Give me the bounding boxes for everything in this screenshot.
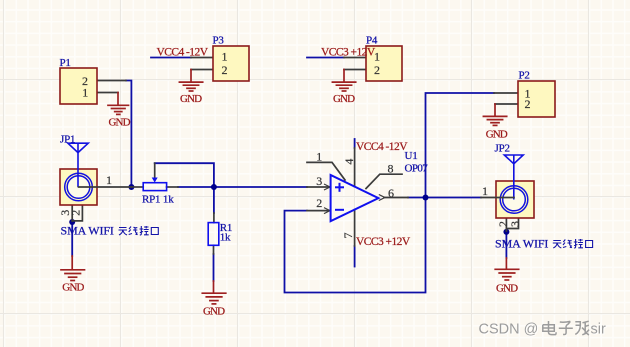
svg-text:1: 1 bbox=[482, 184, 488, 198]
svg-text:VCC3 +12V: VCC3 +12V bbox=[356, 236, 411, 248]
svg-text:RP1 1k: RP1 1k bbox=[142, 194, 174, 206]
svg-text:P4: P4 bbox=[366, 35, 378, 47]
svg-text:1k: 1k bbox=[220, 232, 231, 244]
svg-text:1: 1 bbox=[82, 86, 88, 100]
svg-text:GND: GND bbox=[203, 306, 225, 318]
svg-text:2: 2 bbox=[68, 210, 82, 216]
svg-text:SMA WIFI: SMA WIFI bbox=[61, 224, 114, 238]
svg-text:3: 3 bbox=[508, 221, 522, 227]
svg-text:8: 8 bbox=[388, 161, 394, 175]
svg-text:1: 1 bbox=[222, 50, 228, 64]
svg-text:1: 1 bbox=[106, 173, 112, 187]
svg-text:GND: GND bbox=[486, 129, 508, 141]
svg-text:1: 1 bbox=[316, 150, 322, 164]
svg-text:GND: GND bbox=[180, 93, 202, 105]
svg-text:1: 1 bbox=[374, 50, 380, 64]
svg-text:6: 6 bbox=[388, 186, 394, 200]
svg-text:GND: GND bbox=[496, 283, 518, 295]
svg-text:2: 2 bbox=[374, 63, 380, 77]
svg-text:P2: P2 bbox=[519, 70, 530, 82]
svg-text:OP07: OP07 bbox=[405, 163, 429, 175]
svg-text:P1: P1 bbox=[60, 57, 71, 69]
svg-text:3: 3 bbox=[316, 174, 322, 188]
svg-text:JP1: JP1 bbox=[60, 134, 75, 146]
svg-text:2: 2 bbox=[316, 196, 322, 210]
svg-text:JP2: JP2 bbox=[495, 143, 510, 155]
svg-text:7: 7 bbox=[341, 233, 355, 239]
svg-text:GND: GND bbox=[62, 282, 84, 294]
svg-text:VCC4 -12V: VCC4 -12V bbox=[157, 47, 209, 59]
svg-text:sir: sir bbox=[591, 321, 606, 337]
svg-text:GND: GND bbox=[109, 117, 131, 129]
svg-text:VCC3 +12V: VCC3 +12V bbox=[321, 47, 376, 59]
svg-text:CSDN @: CSDN @ bbox=[479, 321, 539, 337]
svg-text:GND: GND bbox=[333, 93, 355, 105]
svg-text:VCC4 -12V: VCC4 -12V bbox=[356, 141, 408, 153]
svg-text:4: 4 bbox=[342, 159, 356, 165]
svg-text:2: 2 bbox=[525, 97, 531, 111]
svg-text:P3: P3 bbox=[213, 35, 225, 47]
svg-text:2: 2 bbox=[222, 63, 228, 77]
svg-text:SMA WIFI: SMA WIFI bbox=[495, 237, 548, 251]
